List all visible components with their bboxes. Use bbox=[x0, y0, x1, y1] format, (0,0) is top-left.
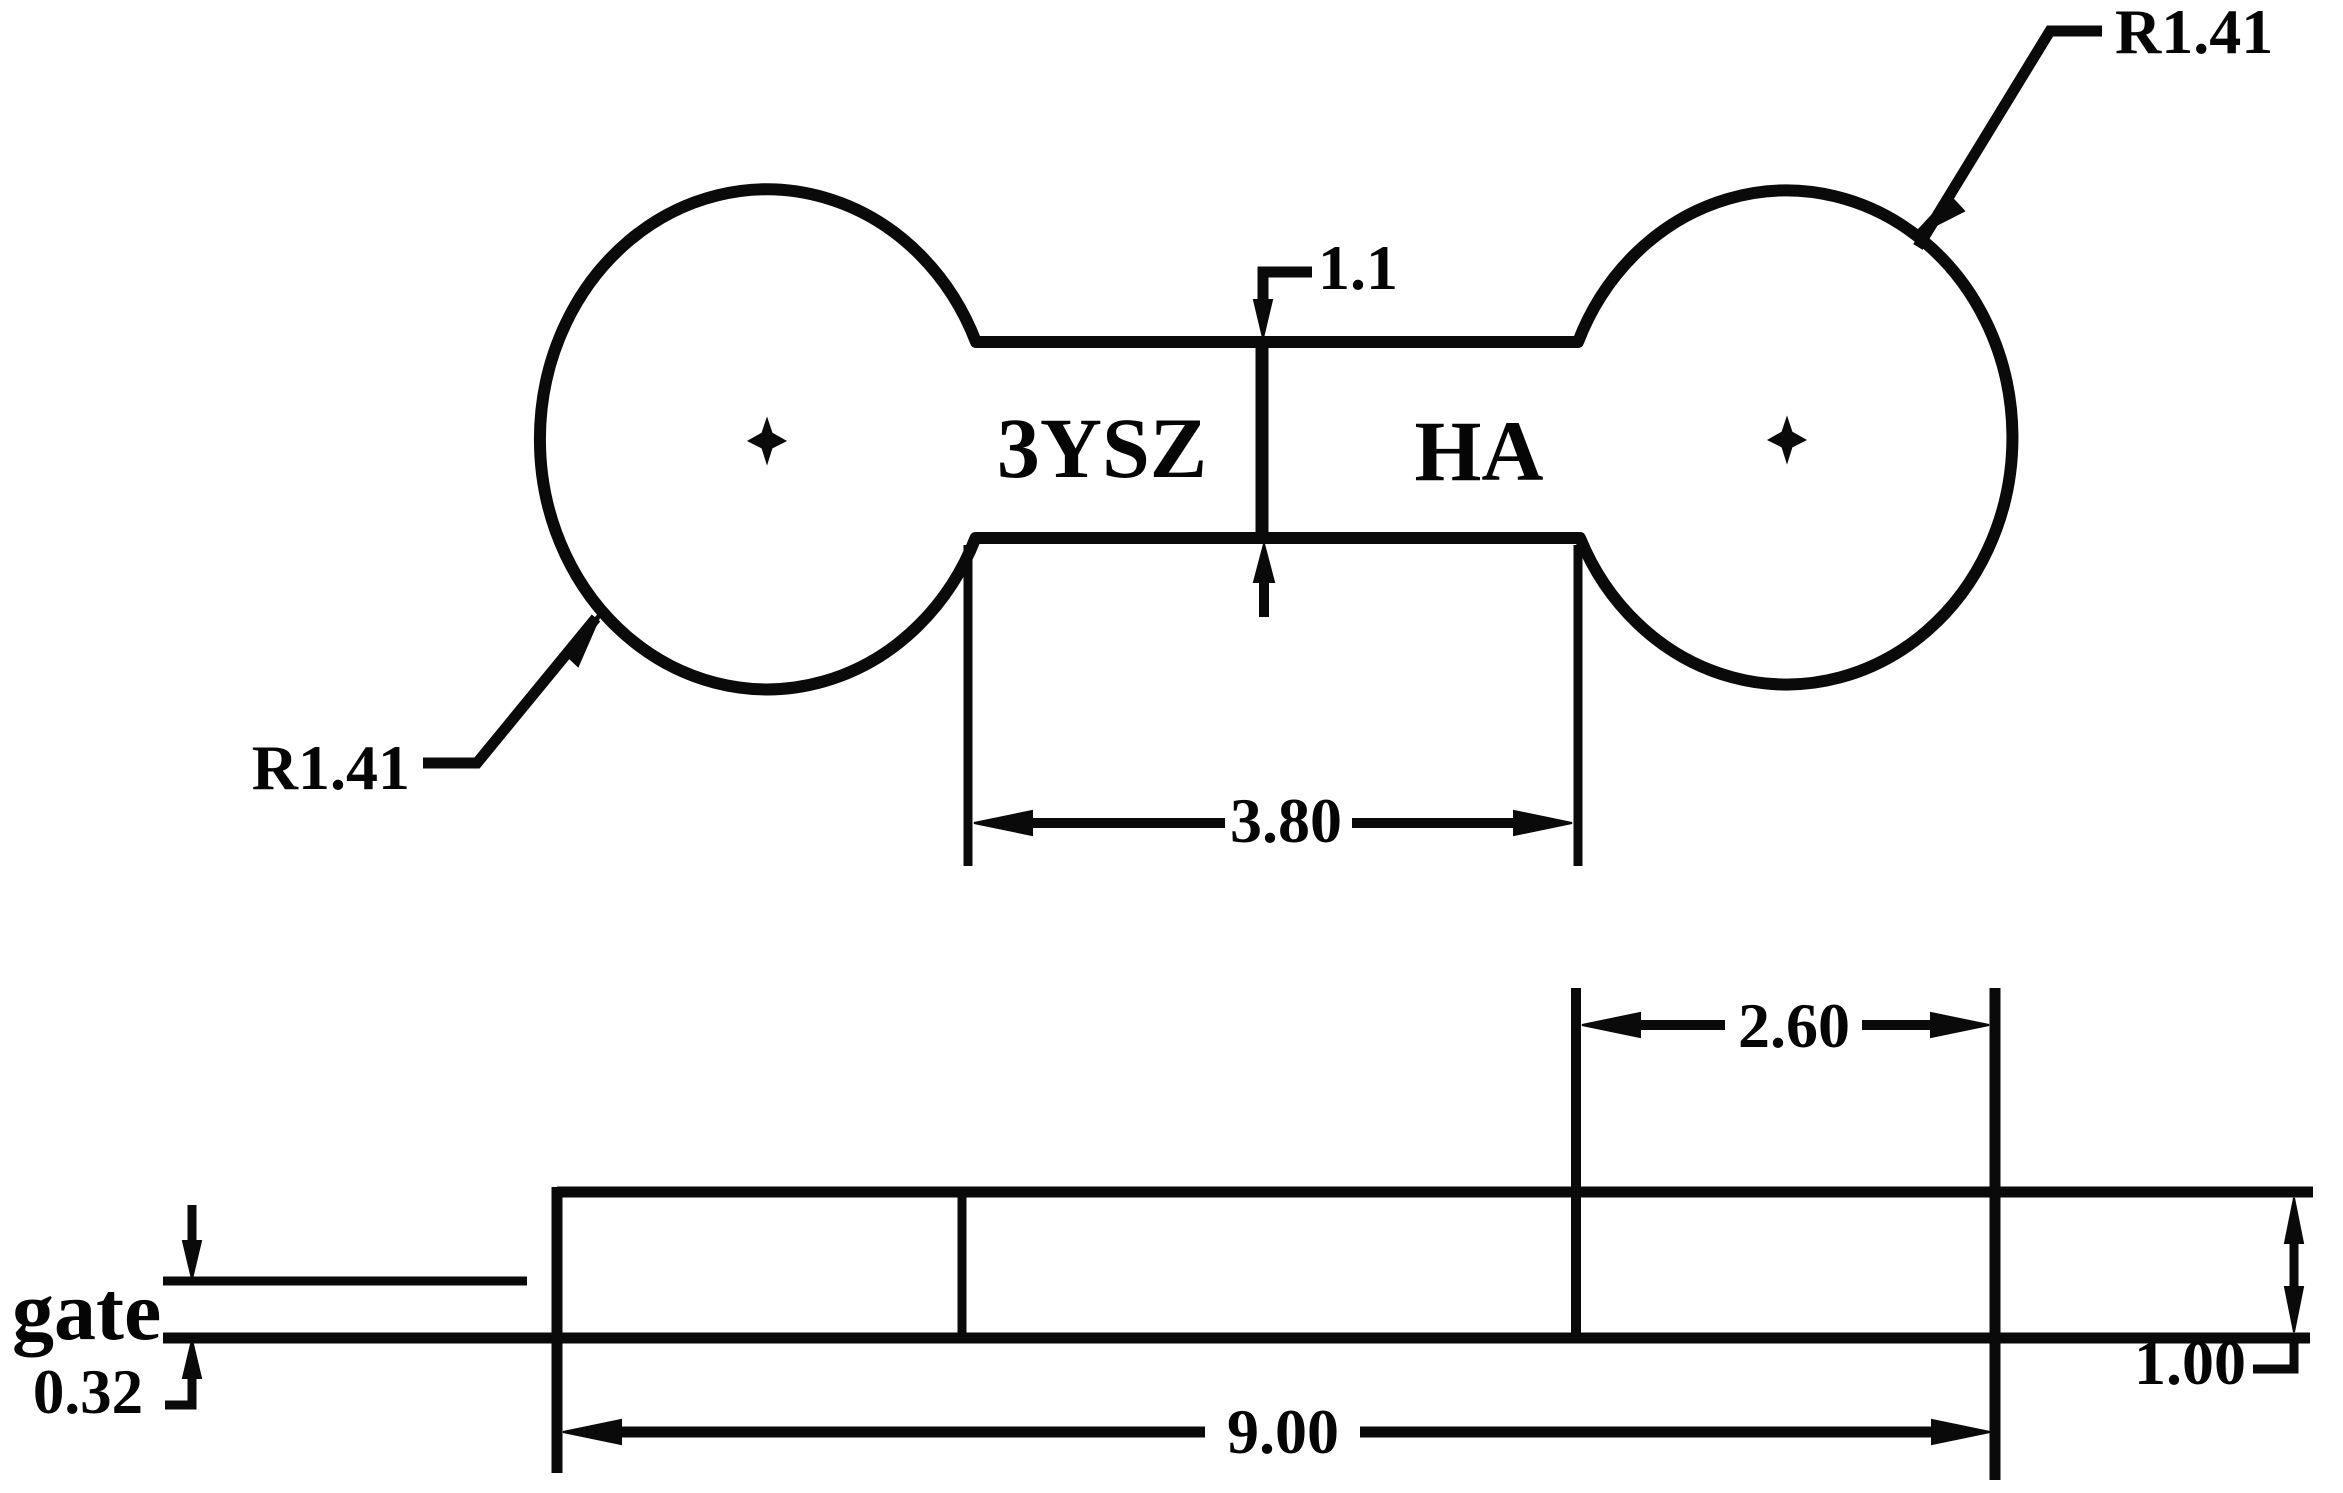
svg-text:gate: gate bbox=[12, 1265, 161, 1358]
svg-text:R1.41: R1.41 bbox=[252, 732, 410, 803]
svg-text:1.1: 1.1 bbox=[1318, 232, 1398, 303]
svg-text:R1.41: R1.41 bbox=[2115, 0, 2273, 67]
svg-text:9.00: 9.00 bbox=[1227, 1396, 1339, 1467]
svg-text:2.60: 2.60 bbox=[1738, 990, 1850, 1061]
svg-text:1.00: 1.00 bbox=[2134, 1327, 2246, 1398]
svg-text:HA: HA bbox=[1415, 403, 1544, 499]
svg-text:0.32: 0.32 bbox=[33, 1357, 143, 1427]
svg-text:3.80: 3.80 bbox=[1230, 785, 1342, 856]
svg-text:3YSZ: 3YSZ bbox=[997, 400, 1207, 496]
